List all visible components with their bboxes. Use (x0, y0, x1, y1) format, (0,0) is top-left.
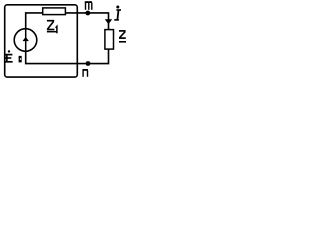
label Z1 (underlined Z with subscript 1) (47, 21, 57, 34)
label I (current, dotted) (114, 6, 121, 20)
current arrowhead I (on load branch) (105, 19, 112, 24)
EMF source internal arrow line (25, 29, 27, 51)
terminal node m (dot) (85, 11, 90, 16)
EMF source E (circle) (14, 29, 37, 52)
wire from source top to impedance Z1 (26, 13, 43, 29)
wire from Z1 to load branch corner (65, 13, 108, 20)
label m (85, 2, 92, 10)
wire from arrow to load (108, 23, 110, 30)
EMF source arrowhead (23, 37, 29, 41)
label E (EMF, dotted, subscript) (5, 50, 21, 62)
impedance Z1 (rectangle) (43, 8, 66, 15)
label n (83, 70, 88, 77)
enclosure box (active two-terminal network) (5, 5, 78, 77)
terminal node n (dot) (86, 61, 91, 66)
label Z (load, underlined) (119, 31, 126, 42)
wire from load bottom through node n to source bottom (26, 49, 109, 64)
load impedance Z (rectangle) (105, 30, 114, 49)
